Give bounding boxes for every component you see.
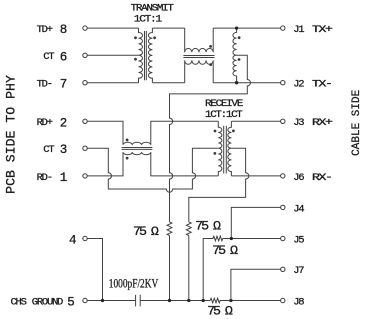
wire pin 5 CHS GROUND to capacitor C1 [87, 300, 135, 302]
svg-text:CABLE SIDE: CABLE SIDE [351, 89, 363, 155]
transformer T2 secondary winding [228, 121, 232, 176]
svg-text:7: 7 [60, 78, 68, 92]
svg-text:TX+: TX+ [312, 24, 333, 36]
terminal J1 [281, 26, 285, 30]
svg-text:1000pF/2KV: 1000pF/2KV [109, 276, 159, 291]
svg-text:J3: J3 [293, 117, 304, 129]
wire RD- pin 1 through choke L2 lower to T2 [87, 152, 218, 176]
wire T2 secondary center tap to resistor R2 [189, 148, 249, 222]
junction J7/J8/R4 [229, 299, 232, 302]
terminal J5 [281, 236, 285, 240]
polarity dot T2 primary lower [214, 152, 217, 155]
terminal TD+ 8 [83, 26, 87, 30]
svg-text:4: 4 [69, 234, 77, 248]
junction pin 4 on ground wire [101, 299, 104, 302]
polarity dot T1 primary lower [134, 58, 137, 61]
svg-text:5: 5 [67, 296, 75, 310]
terminal CT 3 [83, 146, 87, 150]
polarity dot L1 upper [209, 45, 212, 48]
svg-text:J4: J4 [293, 203, 304, 215]
svg-text:J8: J8 [293, 296, 304, 308]
svg-text:75 Ω: 75 Ω [133, 224, 159, 239]
svg-text:J1: J1 [293, 24, 304, 36]
wire T2 secondary to terminal J6 [231, 175, 280, 177]
svg-text:J2: J2 [293, 79, 304, 91]
resistor R1 75 ohm TX termination [167, 222, 172, 236]
svg-text:CHS: CHS [11, 296, 27, 308]
terminal J6 [281, 174, 285, 178]
svg-text:CT: CT [43, 144, 54, 156]
terminal J8 [281, 298, 285, 302]
choke L2 core [122, 148, 153, 150]
svg-text:75 Ω: 75 Ω [195, 219, 221, 234]
transformer T1 core [145, 31, 147, 80]
terminal TD- 7 [83, 81, 87, 85]
svg-text:1: 1 [60, 171, 68, 185]
resistor R4 75 ohm J7/J8 [210, 298, 280, 303]
terminal CT 6 [83, 53, 87, 57]
choke L1 core [183, 56, 214, 58]
transformer T2 core [224, 126, 227, 174]
svg-text:PCB SIDE TO PHY: PCB SIDE TO PHY [3, 75, 18, 194]
svg-text:J7: J7 [293, 265, 304, 277]
svg-text:8: 8 [60, 23, 68, 37]
junction R1 on ground rail [168, 299, 171, 302]
wire T1 to choke L1 bottom [152, 82, 184, 84]
polarity dot T2 primary top [214, 130, 217, 133]
polarity dot T3 lower [238, 58, 241, 61]
autotransformer T3 winding [233, 28, 237, 83]
wire pin 4 to ground wire [87, 239, 102, 301]
svg-text:J6: J6 [293, 172, 304, 184]
polarity dot T2 secondary top [232, 130, 235, 133]
choke L1 lower winding [185, 60, 214, 82]
wire R2 to ground rail [188, 236, 190, 301]
polarity dot L1 lower [209, 63, 212, 66]
svg-text:75 Ω: 75 Ω [212, 243, 238, 258]
wire RD+ pin 2 through choke L2 upper to T2 [87, 121, 218, 145]
junction T3 bottom on J2 rail [235, 81, 238, 84]
terminal J3 [281, 119, 285, 123]
svg-text:2: 2 [60, 116, 68, 130]
wire T3 center tap to resistor R1 [170, 55, 251, 222]
wire J4 tie to J5 node [231, 207, 280, 238]
wire TD+ pin 8 to T1 [87, 27, 138, 29]
wire T1 to choke L1 top [152, 27, 184, 29]
svg-text:RX+: RX+ [312, 117, 333, 129]
terminal pin 4 [83, 236, 87, 240]
svg-text:RD+: RD+ [37, 117, 53, 129]
polarity dot L2 lower [126, 157, 129, 160]
resistor R3 75 ohm J4/J5 [203, 236, 280, 300]
wire TD- pin 7 to T1 [87, 82, 138, 84]
wire choke L1 to terminal J1 [213, 27, 280, 29]
junction R3 on ground rail [202, 299, 205, 302]
terminal RD- 1 [83, 174, 87, 178]
choke L1 upper winding [185, 28, 214, 52]
svg-text:TD-: TD- [37, 79, 52, 91]
capacitor C1 plates [136, 295, 141, 307]
terminal pin 5 [83, 298, 87, 302]
wire R1 to ground rail [169, 236, 171, 301]
svg-text:RD-: RD- [37, 172, 52, 184]
svg-text:GROUND: GROUND [32, 296, 63, 308]
wire CT pin 3 to T2 primary center tap [87, 148, 218, 192]
svg-text:TX-: TX- [312, 79, 332, 91]
terminal J4 [281, 205, 285, 209]
junction J4/J5/R3 [230, 237, 233, 240]
polarity dot L2 upper [126, 139, 129, 142]
svg-text:1CT:1: 1CT:1 [134, 13, 162, 25]
ground rail capacitor to R4 [140, 300, 210, 302]
svg-text:CT: CT [43, 51, 54, 63]
junction R2 on ground rail [187, 299, 190, 302]
resistor R2 75 ohm RX termination [186, 222, 191, 236]
polarity dot T1 secondary top [153, 36, 156, 39]
wire choke L1 to terminal J2 [213, 82, 280, 84]
junction T3 top on J1 rail [235, 26, 238, 29]
transformer T1 secondary winding [148, 28, 152, 83]
terminal J7 [281, 267, 285, 271]
svg-text:J5: J5 [293, 234, 304, 246]
svg-text:1CT:1CT: 1CT:1CT [205, 109, 242, 121]
transformer T1 primary winding [139, 28, 143, 83]
svg-text:6: 6 [60, 50, 68, 64]
terminal J2 [281, 81, 285, 85]
polarity dot T3 upper [238, 36, 241, 39]
wire T2 secondary to terminal J3 [231, 120, 280, 122]
svg-text:75 Ω: 75 Ω [207, 303, 233, 318]
svg-text:3: 3 [60, 143, 68, 157]
svg-text:RX-: RX- [312, 172, 332, 184]
wire J7 tie to J8 node [231, 269, 281, 300]
terminal RD+ 2 [83, 119, 87, 123]
transformer T2 primary winding [218, 121, 222, 176]
svg-text:TD+: TD+ [37, 24, 53, 36]
wire CT pin 6 to T1 center tap [87, 54, 138, 56]
polarity dot T1 primary top [134, 36, 137, 39]
